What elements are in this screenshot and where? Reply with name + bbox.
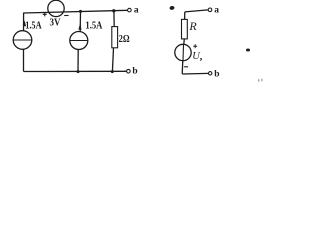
svg-text:1.5A: 1.5A	[25, 19, 41, 31]
current source I1	[13, 31, 32, 50]
svg-text:R: R	[188, 19, 197, 33]
wire below Us	[181, 61, 184, 74]
svg-text:2Ω: 2Ω	[119, 34, 130, 45]
wire between R and Us	[183, 39, 186, 44]
wire middle branch upper	[79, 11, 81, 31]
wire resistor branch upper	[113, 11, 115, 27]
wire left branch lower	[23, 49, 25, 71]
svg-text:a: a	[134, 6, 139, 16]
junction dot top of resistor branch	[112, 9, 115, 12]
svg-text:b: b	[214, 69, 219, 79]
terminal a left circuit	[128, 8, 132, 12]
wire left branch upper	[23, 13, 25, 32]
resistor R body	[182, 19, 188, 39]
terminal a right circuit	[208, 8, 212, 12]
current source I2	[70, 32, 88, 50]
terminal b right circuit	[209, 72, 212, 75]
plus polarity of Us	[193, 44, 197, 48]
voltage source V1 3V	[48, 0, 64, 16]
arrow of current source I1	[23, 20, 26, 26]
wire top right circuit	[185, 10, 208, 12]
arrow of current source I2	[78, 24, 81, 30]
wire resistor branch lower	[112, 48, 113, 72]
terminal b left circuit	[127, 69, 131, 73]
plus polarity of V1	[43, 12, 47, 16]
junction dot top of middle branch	[79, 10, 82, 13]
ink dot mark right margin	[246, 49, 250, 52]
svg-text:b: b	[132, 67, 137, 77]
junction dot bottom of middle branch	[77, 70, 80, 73]
svg-text:3V: 3V	[50, 18, 61, 29]
resistor R1 2ohm body	[112, 27, 118, 48]
voltage source Us	[175, 44, 191, 60]
wire bottom right circuit	[182, 72, 208, 75]
ink blob mark	[169, 6, 175, 11]
minus polarity of Us	[184, 66, 188, 68]
svg-text:1.5A: 1.5A	[85, 20, 102, 32]
faint cropped glyph marks bottom right	[258, 79, 259, 81]
wire bottom bus left circuit	[24, 70, 127, 72]
svg-text:a: a	[214, 5, 219, 15]
minus polarity of V1	[64, 15, 68, 17]
wire right branch above resistor	[184, 12, 186, 20]
junction dot bottom of resistor branch	[111, 70, 114, 73]
wire top bus left circuit	[24, 10, 128, 13]
wire middle branch lower	[77, 50, 79, 72]
